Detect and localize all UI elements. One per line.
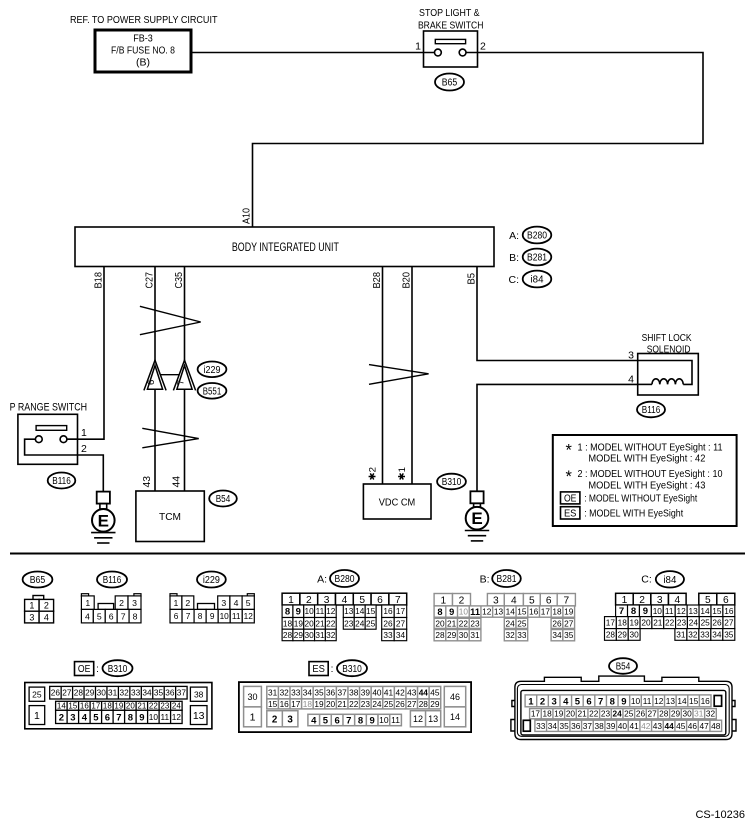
svg-text:28: 28 [606, 629, 616, 639]
svg-text:24: 24 [506, 618, 516, 628]
svg-text:24: 24 [689, 618, 699, 628]
svg-text:20: 20 [641, 618, 651, 628]
svg-text:25: 25 [32, 689, 42, 699]
svg-text:26: 26 [383, 618, 393, 628]
svg-text:CS-10236: CS-10236 [695, 809, 745, 821]
svg-text:8: 8 [437, 607, 442, 617]
svg-text:17: 17 [396, 606, 406, 616]
svg-text:16: 16 [529, 607, 539, 617]
svg-text:16: 16 [701, 696, 711, 706]
svg-text:3: 3 [628, 350, 634, 362]
svg-text:23: 23 [677, 618, 687, 628]
svg-text:16: 16 [383, 606, 393, 616]
svg-text:20: 20 [566, 709, 576, 719]
svg-text:B54: B54 [616, 662, 631, 673]
svg-text:BRAKE SWITCH: BRAKE SWITCH [418, 20, 484, 32]
svg-text:27: 27 [396, 618, 406, 628]
svg-text:43: 43 [653, 721, 663, 731]
svg-text:25: 25 [384, 699, 394, 709]
connector i229/B551 triangle pin 7 [173, 360, 195, 390]
svg-text:B310: B310 [342, 664, 362, 675]
svg-text:6: 6 [174, 611, 179, 621]
svg-text:16: 16 [724, 606, 734, 616]
svg-text:33: 33 [291, 688, 301, 698]
svg-text:8: 8 [128, 712, 133, 723]
svg-text:10: 10 [149, 712, 159, 722]
svg-text:1: 1 [29, 601, 34, 611]
svg-text:44: 44 [172, 476, 183, 488]
svg-text:4: 4 [234, 598, 239, 608]
connector view B54 [511, 658, 736, 739]
svg-text:30: 30 [97, 688, 107, 698]
svg-text:C:: C: [509, 274, 520, 286]
svg-text:15: 15 [689, 696, 699, 706]
svg-text:26: 26 [712, 618, 722, 628]
svg-text:24: 24 [172, 702, 181, 711]
svg-text:1: 1 [622, 595, 628, 606]
svg-text:19: 19 [629, 618, 639, 628]
svg-text:20: 20 [305, 618, 315, 628]
svg-text:34: 34 [396, 630, 406, 640]
svg-text:STOP LIGHT &: STOP LIGHT & [419, 7, 480, 19]
svg-text:18: 18 [618, 618, 628, 628]
ground E (shift lock solenoid side) [465, 491, 489, 541]
note box: EyeSight model legend [553, 435, 737, 526]
svg-text:11: 11 [643, 696, 652, 706]
svg-text:B281: B281 [527, 253, 547, 264]
svg-text:17: 17 [606, 618, 616, 628]
connector oval C: i84 [509, 271, 552, 288]
svg-text:: MODEL WITH EyeSight: : MODEL WITH EyeSight [584, 508, 683, 519]
svg-text:33: 33 [517, 630, 527, 640]
svg-text:C35: C35 [174, 272, 185, 289]
svg-text:B:: B: [509, 252, 519, 264]
svg-text:34: 34 [548, 721, 558, 731]
svg-text:28: 28 [74, 688, 84, 698]
svg-text:6: 6 [105, 712, 110, 723]
connector oval B54 (TCM) [209, 491, 237, 507]
svg-text:B310: B310 [442, 477, 462, 488]
svg-text:16: 16 [80, 702, 89, 711]
svg-text:39: 39 [361, 688, 371, 698]
svg-text:1: 1 [288, 595, 294, 606]
svg-text:29: 29 [85, 688, 95, 698]
svg-text:11: 11 [665, 606, 674, 616]
svg-text:2 : MODEL WITHOUT EyeSight : 1: 2 : MODEL WITHOUT EyeSight : 10 [578, 469, 723, 480]
svg-text:1: 1 [174, 598, 179, 608]
svg-text:21: 21 [577, 709, 587, 719]
svg-text:20: 20 [435, 618, 445, 628]
svg-text:45: 45 [676, 721, 686, 731]
svg-text:19: 19 [564, 607, 574, 617]
svg-text:4: 4 [628, 374, 634, 386]
svg-text:1: 1 [528, 696, 534, 707]
ground E (P range switch side) [91, 492, 115, 543]
svg-text:45: 45 [430, 688, 440, 698]
svg-text:21: 21 [447, 618, 457, 628]
svg-text:38: 38 [349, 688, 359, 698]
svg-text:5: 5 [246, 598, 251, 608]
svg-text:7: 7 [619, 606, 624, 617]
svg-text:11: 11 [470, 607, 480, 617]
svg-text:C:: C: [641, 574, 652, 586]
svg-text:37: 37 [583, 721, 593, 731]
svg-text:REF. TO POWER SUPPLY CIRCUIT: REF. TO POWER SUPPLY CIRCUIT [70, 14, 218, 26]
svg-text:6: 6 [723, 595, 729, 606]
svg-text:B54: B54 [216, 494, 231, 505]
svg-text:33: 33 [131, 688, 141, 698]
svg-text:13: 13 [428, 714, 438, 724]
svg-text:3: 3 [493, 595, 499, 606]
connector view B: B281 [434, 570, 575, 641]
svg-text:23: 23 [344, 618, 354, 628]
svg-text:(B): (B) [136, 58, 150, 69]
svg-text:19: 19 [294, 618, 304, 628]
svg-text:17: 17 [541, 607, 551, 617]
svg-text:2: 2 [459, 595, 465, 606]
svg-text:7: 7 [346, 715, 351, 726]
svg-text::: : [96, 664, 99, 675]
svg-text:10: 10 [379, 715, 389, 725]
svg-text:7: 7 [186, 611, 191, 621]
svg-text:14: 14 [506, 607, 516, 617]
svg-text:23: 23 [601, 709, 611, 719]
svg-text:23: 23 [361, 699, 371, 709]
wire: C27 down to connector i229 triangle 6 [154, 267, 156, 362]
svg-text:7: 7 [563, 595, 569, 606]
svg-text:27: 27 [62, 688, 72, 698]
svg-text:23: 23 [470, 618, 480, 628]
svg-text:20: 20 [326, 699, 336, 709]
svg-text:B65: B65 [30, 575, 46, 586]
svg-text:24: 24 [612, 709, 622, 719]
svg-text:F/B FUSE NO. 8: F/B FUSE NO. 8 [111, 46, 175, 57]
svg-text:*: * [566, 442, 573, 460]
svg-text:28: 28 [435, 630, 445, 640]
svg-text:16: 16 [280, 699, 290, 709]
svg-text:6: 6 [334, 715, 339, 726]
svg-text:21: 21 [338, 699, 348, 709]
svg-text:17: 17 [291, 699, 301, 709]
svg-text:22: 22 [326, 618, 336, 628]
svg-text:2: 2 [81, 443, 87, 455]
svg-text:9: 9 [296, 607, 301, 618]
svg-text:27: 27 [648, 709, 658, 719]
svg-text:35: 35 [724, 629, 734, 639]
svg-text:13: 13 [666, 696, 676, 706]
svg-text:A:: A: [509, 230, 519, 242]
svg-text:24: 24 [355, 618, 365, 628]
svg-text:32: 32 [506, 630, 516, 640]
svg-text:ES: ES [564, 508, 577, 519]
svg-text:4: 4 [82, 712, 88, 723]
svg-text:MODEL WITH EyeSight : 43: MODEL WITH EyeSight : 43 [588, 480, 705, 491]
svg-text:19: 19 [554, 709, 564, 719]
svg-text:37: 37 [177, 688, 187, 698]
svg-text:1: 1 [250, 712, 256, 724]
svg-text:28: 28 [283, 630, 293, 640]
wire: shift lock solenoid pin 4 left and down to ground [477, 384, 638, 491]
svg-text:4: 4 [563, 696, 569, 707]
svg-text:22: 22 [589, 709, 599, 719]
svg-text:B116: B116 [103, 575, 122, 586]
svg-text:18: 18 [103, 702, 112, 711]
svg-text:4: 4 [342, 595, 348, 606]
svg-text:14: 14 [700, 606, 710, 616]
svg-text:B116: B116 [52, 476, 71, 487]
svg-text:14: 14 [450, 712, 460, 722]
svg-text:38: 38 [194, 689, 204, 699]
svg-text:44: 44 [664, 721, 674, 731]
svg-text:12: 12 [413, 714, 423, 724]
wire: triangle 7 down to TCM pin 44 [184, 389, 186, 491]
svg-text:43: 43 [407, 688, 417, 698]
svg-text:12: 12 [172, 712, 182, 722]
label: SHIFT LOCK SOLENOID [642, 332, 692, 356]
svg-text:24: 24 [372, 699, 382, 709]
svg-text:7: 7 [598, 696, 603, 707]
svg-text:6: 6 [146, 380, 157, 385]
svg-text:12: 12 [244, 611, 254, 621]
svg-text:2: 2 [185, 598, 190, 608]
svg-text:31: 31 [694, 709, 704, 719]
svg-text:31: 31 [108, 688, 118, 698]
svg-text::: : [331, 664, 334, 675]
svg-text:35: 35 [559, 721, 569, 731]
svg-text:E: E [471, 509, 482, 528]
svg-text:1: 1 [415, 41, 421, 53]
svg-text:3: 3 [287, 714, 293, 725]
svg-text:4: 4 [674, 595, 680, 606]
svg-text:B5: B5 [467, 273, 478, 285]
svg-text:29: 29 [430, 699, 440, 709]
svg-text:26: 26 [51, 688, 61, 698]
svg-text:13: 13 [494, 607, 504, 617]
svg-text:15: 15 [712, 606, 722, 616]
svg-text:13: 13 [344, 606, 354, 616]
svg-text:1: 1 [85, 598, 90, 608]
svg-text:31: 31 [676, 629, 686, 639]
connector view A: B280 [282, 570, 407, 641]
svg-text:5: 5 [97, 611, 102, 621]
svg-text:35: 35 [564, 630, 574, 640]
svg-text:17: 17 [91, 702, 100, 711]
svg-text:46: 46 [450, 692, 460, 702]
svg-text:MODEL WITH EyeSight : 42: MODEL WITH EyeSight : 42 [588, 454, 705, 465]
connector view C: i84 [605, 571, 735, 640]
svg-text:4: 4 [44, 612, 49, 622]
wire: B28 down to VDC CM pin *2 [382, 267, 384, 484]
svg-text:A:: A: [317, 574, 327, 586]
svg-text:8: 8 [133, 611, 138, 621]
svg-text:2: 2 [44, 601, 49, 611]
svg-text:4: 4 [85, 611, 90, 621]
svg-text:34: 34 [303, 688, 313, 698]
twisted pair symbol (B28/B20) [369, 365, 429, 385]
svg-text:8: 8 [631, 606, 636, 617]
svg-text:15: 15 [268, 699, 278, 709]
svg-text:4: 4 [311, 715, 317, 726]
svg-text:9: 9 [621, 696, 626, 707]
svg-text:41: 41 [629, 721, 639, 731]
svg-text:11: 11 [161, 712, 170, 722]
svg-text:35: 35 [154, 688, 164, 698]
connector oval B310 (VDC CM) [437, 474, 466, 490]
svg-text:9: 9 [139, 712, 144, 723]
connector view OE : B310 [25, 660, 212, 729]
svg-text:C27: C27 [145, 272, 156, 289]
svg-text:25: 25 [366, 618, 376, 628]
svg-text:2: 2 [59, 712, 64, 723]
svg-text:B280: B280 [527, 231, 547, 242]
svg-text:17: 17 [531, 709, 541, 719]
svg-text:2: 2 [119, 598, 124, 608]
svg-text:31: 31 [268, 688, 278, 698]
svg-text:22: 22 [665, 618, 675, 628]
wire: link between triangles 6 and 7 [161, 374, 180, 376]
svg-text:B281: B281 [497, 574, 517, 585]
svg-text:30: 30 [305, 630, 315, 640]
svg-text:6: 6 [109, 611, 114, 621]
svg-text:B551: B551 [203, 386, 222, 397]
svg-text:15: 15 [366, 606, 376, 616]
svg-text:44: 44 [419, 688, 429, 698]
svg-text:18: 18 [283, 618, 293, 628]
svg-text:32: 32 [120, 688, 130, 698]
svg-text:VDC CM: VDC CM [379, 497, 416, 509]
svg-text:7: 7 [116, 712, 121, 723]
svg-text:14: 14 [57, 702, 66, 711]
svg-text:11: 11 [391, 715, 400, 725]
svg-text:1: 1 [440, 595, 446, 606]
svg-text:3: 3 [29, 612, 34, 622]
svg-text:23: 23 [160, 702, 169, 711]
svg-text:27: 27 [724, 618, 734, 628]
svg-text:2: 2 [480, 41, 486, 53]
svg-text:: MODEL WITHOUT EyeSight: : MODEL WITHOUT EyeSight [584, 493, 697, 504]
svg-text:FB-3: FB-3 [133, 34, 153, 45]
svg-text:13: 13 [688, 606, 698, 616]
svg-text:35: 35 [314, 688, 324, 698]
svg-text:3: 3 [551, 696, 556, 707]
svg-text:18: 18 [552, 607, 562, 617]
svg-text:5: 5 [323, 715, 329, 726]
svg-text:29: 29 [294, 630, 304, 640]
svg-text:28: 28 [659, 709, 669, 719]
wire: B20 down to VDC CM pin *1 [411, 267, 413, 484]
svg-text:10: 10 [305, 606, 315, 616]
connector oval i229 [198, 362, 227, 378]
twisted pair symbol (TCM wires) [142, 428, 198, 448]
svg-text:46: 46 [688, 721, 698, 731]
svg-text:B20: B20 [402, 272, 413, 289]
svg-text:40: 40 [618, 721, 628, 731]
svg-text:1: 1 [81, 427, 87, 439]
svg-text:9: 9 [643, 606, 648, 617]
svg-text:11: 11 [316, 606, 325, 616]
svg-text:12: 12 [482, 607, 492, 617]
svg-text:2: 2 [306, 595, 312, 606]
wire: fuse FB-3 to stop light switch pin 1 [191, 52, 435, 54]
wire: switch pin 2 loop down to body integrated unit pin A10 [253, 53, 704, 228]
svg-text:37: 37 [338, 688, 348, 698]
svg-text:OE: OE [564, 493, 577, 504]
svg-text:10: 10 [220, 611, 230, 621]
svg-text:BODY INTEGRATED UNIT: BODY INTEGRATED UNIT [232, 240, 339, 254]
svg-text:ES: ES [312, 664, 325, 675]
svg-text:21: 21 [137, 702, 146, 711]
svg-text:21: 21 [653, 618, 663, 628]
svg-text:30: 30 [459, 630, 469, 640]
svg-text:9: 9 [449, 607, 454, 617]
svg-text:5: 5 [93, 712, 99, 723]
svg-text:47: 47 [699, 721, 709, 731]
connector oval A: B280 [509, 227, 551, 244]
svg-text:6: 6 [586, 696, 591, 707]
svg-text:22: 22 [149, 702, 158, 711]
svg-text:11: 11 [232, 611, 241, 621]
svg-text:1 : MODEL WITHOUT EyeSight : 1: 1 : MODEL WITHOUT EyeSight : 11 [578, 442, 723, 453]
svg-text:31: 31 [315, 630, 325, 640]
svg-text:4: 4 [511, 595, 517, 606]
svg-text:5: 5 [705, 595, 711, 606]
svg-text:33: 33 [536, 721, 546, 731]
svg-text:36: 36 [571, 721, 581, 731]
svg-text:7: 7 [395, 595, 401, 606]
svg-text:29: 29 [671, 709, 681, 719]
svg-text:18: 18 [303, 699, 313, 709]
svg-text:15: 15 [68, 702, 77, 711]
svg-text:7: 7 [176, 380, 187, 385]
svg-text:32: 32 [326, 630, 336, 640]
svg-text:22: 22 [349, 699, 359, 709]
svg-text:29: 29 [618, 629, 628, 639]
svg-text:41: 41 [384, 688, 394, 698]
svg-text:B280: B280 [335, 574, 355, 585]
label: STOP LIGHT & BRAKE SWITCH [418, 7, 484, 32]
svg-text:E: E [98, 511, 109, 530]
svg-text:38: 38 [594, 721, 604, 731]
svg-text:8: 8 [285, 607, 290, 618]
svg-text:42: 42 [396, 688, 406, 698]
svg-text:6: 6 [546, 595, 552, 606]
svg-text:B28: B28 [372, 272, 383, 289]
svg-text:32: 32 [706, 709, 716, 719]
svg-text:40: 40 [372, 688, 382, 698]
svg-text:19: 19 [314, 699, 324, 709]
svg-text:27: 27 [564, 618, 574, 628]
box: TCM [136, 491, 204, 542]
svg-text:36: 36 [326, 688, 336, 698]
wire: B5 down and right to shift lock solenoid pin 3 [477, 267, 638, 361]
svg-text:TCM: TCM [159, 511, 181, 523]
svg-text:30: 30 [630, 629, 640, 639]
svg-text:29: 29 [447, 630, 457, 640]
svg-text:*: * [566, 468, 573, 486]
svg-text:A10: A10 [242, 208, 253, 224]
box: BODY INTEGRATED UNIT [75, 227, 494, 267]
svg-text:30: 30 [247, 692, 257, 702]
svg-text:18: 18 [542, 709, 552, 719]
svg-text:i229: i229 [203, 575, 220, 586]
switch: stop light & brake switch (B65) [424, 31, 478, 67]
connector view B116 [81, 572, 141, 623]
svg-text:26: 26 [552, 618, 562, 628]
svg-text:39: 39 [606, 721, 616, 731]
svg-text:i84: i84 [663, 575, 676, 586]
svg-text:SHIFT LOCK: SHIFT LOCK [642, 332, 692, 344]
svg-text:12: 12 [677, 606, 687, 616]
